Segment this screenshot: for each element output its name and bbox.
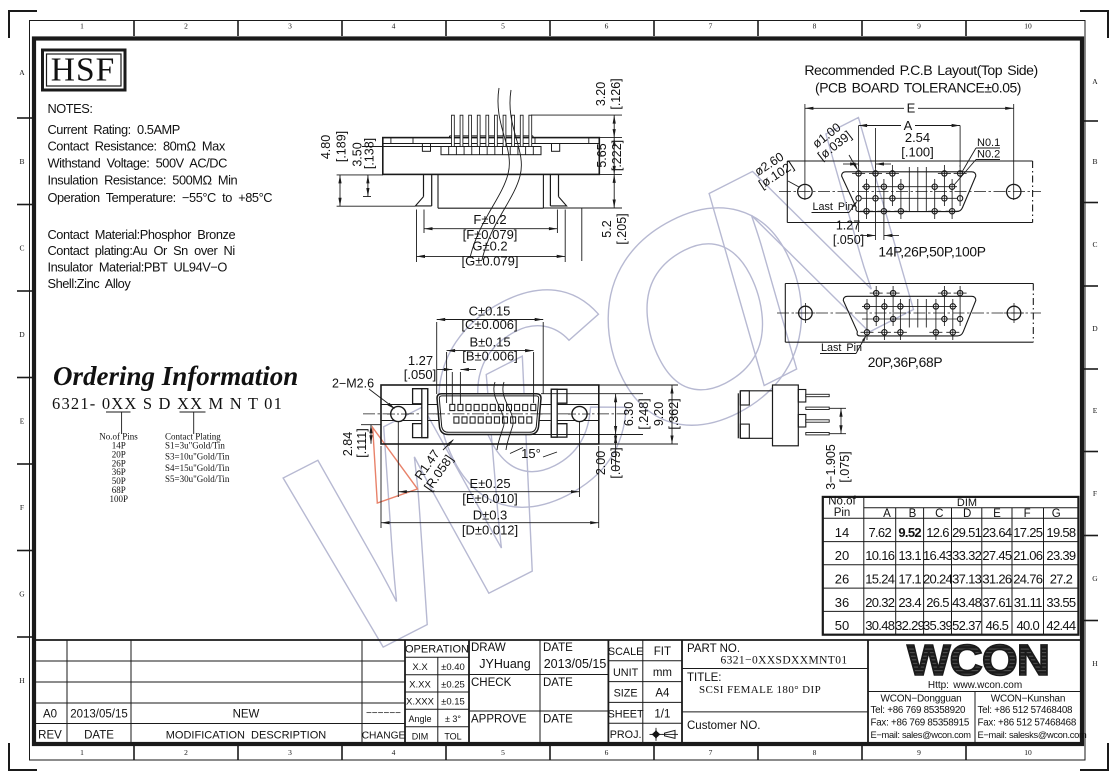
small connector pins	[806, 394, 829, 396]
svg-text:C: C	[19, 244, 24, 253]
svg-text:[.050]: [.050]	[833, 233, 864, 247]
svg-text:Insulation Resistance: 500MΩ: Insulation Resistance: 500MΩ Min	[48, 173, 238, 188]
small connector right steps	[798, 390, 806, 403]
svg-text:FIT: FIT	[654, 646, 671, 658]
svg-text:APPROVE: APPROVE	[471, 714, 527, 726]
svg-text:2013/05/15: 2013/05/15	[544, 657, 607, 671]
side view latch tab left	[422, 144, 430, 152]
svg-text:9: 9	[917, 22, 921, 31]
svg-text:6: 6	[605, 22, 609, 31]
svg-text:DATE: DATE	[543, 714, 573, 726]
svg-text:6.30: 6.30	[622, 402, 636, 426]
svg-text:14: 14	[835, 525, 849, 540]
svg-text:50: 50	[835, 618, 849, 633]
svg-text:B±0.15: B±0.15	[469, 335, 510, 350]
svg-text:± 3°: ± 3°	[445, 714, 461, 724]
pcb layout 2 D-sub outline	[843, 296, 976, 336]
svg-text:X.X: X.X	[412, 662, 428, 673]
label R1.47 [R.058] with leader	[410, 444, 456, 493]
svg-text:[.050]: [.050]	[404, 367, 437, 382]
front view centreline	[363, 413, 630, 415]
svg-text:PART NO.: PART NO.	[687, 643, 740, 655]
svg-text:19.58: 19.58	[1046, 525, 1076, 540]
svg-text:[.222]: [.222]	[610, 140, 624, 171]
svg-text:2: 2	[184, 748, 188, 757]
svg-text:30.48: 30.48	[865, 618, 895, 633]
side view pin mesa	[450, 135, 534, 137]
svg-text:E: E	[993, 508, 1001, 520]
svg-text:D: D	[1092, 324, 1098, 333]
svg-text:[.138]: [.138]	[363, 138, 377, 169]
svg-text:20P,36P,68P: 20P,36P,68P	[868, 355, 943, 370]
pcb layout 2 mounting hole left	[799, 306, 813, 320]
svg-text:Http: www.wcon.com: Http: www.wcon.com	[928, 680, 1022, 691]
svg-text:NOTES:: NOTES:	[48, 101, 93, 116]
svg-text:23.64: 23.64	[982, 525, 1012, 540]
pcb layout 1 board outline	[787, 160, 1032, 162]
front view left board lock	[413, 389, 428, 404]
svg-text:8: 8	[813, 748, 817, 757]
svg-text:DIM: DIM	[412, 731, 429, 741]
svg-text:1: 1	[80, 748, 84, 757]
svg-text:E: E	[907, 101, 916, 116]
svg-text:G±0.2: G±0.2	[472, 239, 507, 254]
svg-text:14P,26P,50P,100P: 14P,26P,50P,100P	[878, 245, 985, 260]
svg-text:S3=10u"Gold/Tin: S3=10u"Gold/Tin	[165, 452, 230, 462]
pcb layout 1 D-sub outline	[842, 172, 976, 212]
svg-text:[.111]: [.111]	[355, 428, 369, 457]
svg-text:4: 4	[392, 22, 396, 31]
svg-text:S5=30u"Gold/Tin: S5=30u"Gold/Tin	[165, 474, 230, 484]
svg-text:S1=3u"Gold/Tin: S1=3u"Gold/Tin	[165, 441, 225, 451]
svg-text:[.205]: [.205]	[615, 213, 629, 244]
pcb layout 2 pin holes	[875, 286, 877, 326]
svg-text:Tel: +86 512 57468408: Tel: +86 512 57468408	[978, 705, 1074, 716]
pcb layout 1 mounting hole right	[1006, 184, 1021, 199]
svg-text:DRAW: DRAW	[471, 642, 506, 654]
svg-text:[G±0.079]: [G±0.079]	[461, 254, 518, 269]
svg-text:40.0: 40.0	[1016, 618, 1039, 633]
projection symbol	[653, 731, 659, 737]
front view right board lock	[551, 389, 567, 403]
svg-text:24.76: 24.76	[1013, 572, 1043, 587]
svg-text:100P: 100P	[110, 494, 129, 504]
svg-text:Pin: Pin	[834, 507, 851, 519]
svg-text:D: D	[963, 508, 971, 520]
svg-text:4.80: 4.80	[319, 135, 333, 159]
svg-text:REV: REV	[38, 730, 62, 742]
svg-text:2.84: 2.84	[341, 432, 355, 456]
pcb layout 1 pin holes	[858, 165, 860, 206]
svg-text:27.2: 27.2	[1050, 572, 1073, 587]
svg-text:X.XXX: X.XXX	[406, 697, 435, 708]
svg-text:[.126]: [.126]	[609, 78, 623, 109]
svg-text:C: C	[935, 508, 943, 520]
svg-text:Recommended P.C.B Layout(Top: Recommended P.C.B Layout(Top Side)	[804, 62, 1037, 78]
svg-text:B: B	[909, 508, 917, 520]
svg-text:31.26: 31.26	[982, 572, 1012, 587]
svg-text:[.248]: [.248]	[637, 398, 651, 429]
svg-text:9.20: 9.20	[652, 402, 666, 426]
svg-text:C: C	[1092, 240, 1097, 249]
svg-text:13.1: 13.1	[898, 548, 921, 563]
svg-text:4: 4	[392, 748, 396, 757]
svg-text:A: A	[19, 68, 25, 77]
svg-text:3−1.905: 3−1.905	[824, 444, 838, 490]
svg-text:1.27: 1.27	[836, 219, 860, 233]
svg-text:mm: mm	[653, 667, 672, 679]
svg-text:36: 36	[835, 595, 849, 610]
underline second XX	[180, 411, 206, 413]
svg-text:WCON: WCON	[907, 635, 1049, 685]
svg-text:SIZE: SIZE	[614, 688, 638, 700]
svg-text:15°: 15°	[521, 446, 541, 461]
svg-text:37.61: 37.61	[982, 595, 1012, 610]
svg-text:33.55: 33.55	[1046, 595, 1076, 610]
svg-text:SHEET: SHEET	[608, 708, 644, 720]
svg-text:A4: A4	[655, 688, 670, 700]
svg-text:Fax: +86 769 85358915: Fax: +86 769 85358915	[871, 718, 970, 729]
svg-text:Withstand Voltage: 500V AC/: Withstand Voltage: 500V AC/DC	[48, 156, 228, 171]
svg-text:PROJ.: PROJ.	[610, 729, 642, 741]
svg-text:35.39: 35.39	[923, 618, 953, 633]
svg-text:DATE: DATE	[543, 677, 573, 689]
svg-text:A: A	[883, 508, 891, 520]
border tick marks and zone numbers	[133, 21, 135, 37]
svg-text:6321- 0XX S D XX M N T 01: 6321- 0XX S D XX M N T 01	[52, 394, 283, 413]
svg-text:SCSI FEMALE 180° DIP: SCSI FEMALE 180° DIP	[699, 684, 821, 696]
svg-text:No.of: No.of	[828, 496, 856, 508]
svg-text:NEW: NEW	[233, 709, 260, 721]
pcb layout 1 mounting hole left	[798, 184, 813, 199]
svg-text:3: 3	[288, 22, 292, 31]
front view mounting hole left	[391, 406, 406, 421]
HSF logo box	[43, 50, 126, 90]
svg-text:±0.40: ±0.40	[441, 662, 465, 673]
svg-text:F: F	[1093, 489, 1097, 498]
svg-text:31.11: 31.11	[1014, 595, 1043, 610]
side view break lines	[470, 88, 509, 258]
svg-text:1: 1	[80, 22, 84, 31]
label diameter 2.60 with leader	[749, 148, 796, 192]
pcb layout 2 centreline	[777, 312, 1041, 314]
svg-text:−−−−−−: −−−−−−	[366, 708, 401, 719]
side view body	[383, 138, 600, 175]
leader line to Contact Plating	[193, 413, 195, 435]
WCON logo	[907, 635, 1049, 685]
small connector main block	[773, 385, 799, 446]
svg-text:E: E	[1093, 406, 1098, 415]
svg-text:SCALE: SCALE	[608, 646, 643, 658]
svg-text:Current Rating: 0.5AMP: Current Rating: 0.5AMP	[48, 122, 180, 137]
part no section	[682, 668, 868, 670]
front view contacts bottom row	[454, 417, 459, 423]
scale/unit/size/sheet/proj column	[642, 640, 644, 744]
svg-text:[.100]: [.100]	[901, 145, 934, 160]
svg-text:UNIT: UNIT	[613, 667, 639, 679]
svg-text:HSF: HSF	[51, 52, 115, 89]
svg-text:27.45: 27.45	[982, 548, 1012, 563]
revision table	[66, 640, 68, 744]
front view mounting hole right	[572, 406, 587, 421]
svg-text:33.32: 33.32	[952, 548, 982, 563]
svg-text:Last Pin: Last Pin	[813, 201, 854, 213]
svg-text:7: 7	[709, 22, 713, 31]
svg-text:2.00: 2.00	[594, 451, 608, 475]
svg-text:Contact Resistance: 80mΩ Ma: Contact Resistance: 80mΩ Max	[48, 139, 226, 154]
svg-text:52.37: 52.37	[952, 618, 982, 633]
side view latch tab right	[552, 144, 560, 152]
svg-text:D±0.3: D±0.3	[473, 508, 508, 523]
svg-text:[.362]: [.362]	[667, 398, 681, 429]
svg-text:WCON−Dongguan: WCON−Dongguan	[880, 694, 961, 705]
svg-text:CHECK: CHECK	[471, 677, 512, 689]
svg-text:16.43: 16.43	[923, 548, 953, 563]
svg-text:S4=15u"Gold/Tin: S4=15u"Gold/Tin	[165, 463, 230, 473]
small connector body	[737, 393, 739, 438]
svg-text:Tel: +86 769 85358920: Tel: +86 769 85358920	[871, 705, 967, 716]
side view board line	[337, 205, 416, 207]
svg-text:26: 26	[835, 572, 849, 587]
svg-text:G: G	[1052, 508, 1061, 520]
svg-text:5.2: 5.2	[600, 220, 614, 237]
svg-text:TOL: TOL	[444, 731, 461, 741]
svg-text:20.24: 20.24	[923, 572, 953, 587]
svg-text:N0.2: N0.2	[977, 149, 1000, 161]
front view shell outline	[381, 385, 599, 444]
operation tolerance table	[437, 657, 439, 744]
svg-text:(PCB BOARD TOLERANCE±0.05): (PCB BOARD TOLERANCE±0.05)	[815, 80, 1021, 96]
pcb layout 1 dim A	[858, 126, 860, 167]
leader line to No.of Pins	[121, 413, 123, 435]
svg-text:[.189]: [.189]	[335, 131, 349, 162]
front view D-sub trapezoid	[437, 394, 541, 435]
svg-text:20.32: 20.32	[865, 595, 895, 610]
title block frame	[34, 639, 1082, 641]
svg-text:3.20: 3.20	[594, 82, 608, 106]
svg-text:[E±0.010]: [E±0.010]	[462, 491, 518, 506]
svg-text:Fax: +86 512 57468468: Fax: +86 512 57468468	[978, 718, 1077, 729]
svg-text:42.44: 42.44	[1046, 618, 1076, 633]
svg-text:7: 7	[709, 748, 713, 757]
svg-text:17.1: 17.1	[898, 572, 921, 587]
svg-text:Contact Material:Phosphor Br: Contact Material:Phosphor Bronze	[48, 227, 236, 242]
svg-text:8: 8	[813, 22, 817, 31]
front view flange lines	[381, 404, 599, 406]
watermark orange triangle	[373, 428, 418, 503]
svg-text:[.075]: [.075]	[838, 451, 852, 482]
svg-text:5: 5	[501, 22, 505, 31]
side view left leg	[423, 174, 425, 196]
svg-text:G: G	[1092, 574, 1098, 583]
svg-text:9.52: 9.52	[898, 525, 921, 540]
svg-text:F: F	[20, 503, 24, 512]
svg-text:JYHuang: JYHuang	[479, 657, 530, 671]
svg-text:B: B	[1092, 157, 1097, 166]
svg-text:20: 20	[835, 548, 849, 563]
svg-text:37.13: 37.13	[952, 572, 982, 587]
side view right leg	[558, 174, 560, 196]
svg-text:Operation Temperature: −55°C: Operation Temperature: −55°C to +85°C	[48, 190, 273, 205]
svg-text:±0.15: ±0.15	[441, 697, 465, 708]
svg-text:10: 10	[1024, 748, 1032, 757]
corner trim marks	[9, 11, 37, 38]
svg-text:A: A	[1092, 77, 1098, 86]
svg-text:H: H	[1092, 659, 1098, 668]
svg-text:CHANGE: CHANGE	[362, 731, 406, 742]
svg-text:29.51: 29.51	[952, 525, 982, 540]
svg-text:21.06: 21.06	[1013, 548, 1043, 563]
draw/check/approve columns	[539, 640, 541, 744]
svg-text:DATE: DATE	[543, 642, 573, 654]
svg-text:Contact plating:Au Or Sn o: Contact plating:Au Or Sn over Ni	[48, 243, 235, 258]
svg-text:DATE: DATE	[84, 730, 114, 742]
svg-text:Customer NO.: Customer NO.	[687, 720, 761, 732]
svg-text:26.5: 26.5	[926, 595, 949, 610]
svg-text:1.27: 1.27	[408, 353, 433, 368]
svg-text:[D±0.012]: [D±0.012]	[462, 523, 518, 538]
svg-text:10.16: 10.16	[865, 548, 895, 563]
pcb layout 2 mounting hole right	[1007, 306, 1021, 320]
svg-text:9: 9	[917, 748, 921, 757]
svg-text:E: E	[20, 417, 25, 426]
svg-text:2: 2	[184, 22, 188, 31]
svg-text:Insulator Material:PBT UL94V: Insulator Material:PBT UL94V−O	[48, 260, 228, 275]
svg-text:17.25: 17.25	[1013, 525, 1043, 540]
svg-text:2−M2.6: 2−M2.6	[332, 377, 374, 391]
dimension table	[823, 497, 1079, 635]
side view top band line	[383, 143, 600, 145]
pcb layout 2 board outline	[785, 283, 1033, 285]
underline first XX	[106, 411, 131, 413]
svg-text:F: F	[1024, 508, 1031, 520]
svg-text:MODIFICATION DESCRIPTION: MODIFICATION DESCRIPTION	[166, 730, 327, 742]
svg-text:7.62: 7.62	[868, 525, 891, 540]
svg-text:D: D	[19, 330, 25, 339]
svg-text:Last Pin: Last Pin	[821, 342, 862, 354]
svg-text:32.29: 32.29	[895, 618, 925, 633]
svg-text:43.48: 43.48	[952, 595, 982, 610]
side view centre standoff	[437, 174, 439, 208]
svg-text:3: 3	[288, 748, 292, 757]
svg-text:5: 5	[501, 748, 505, 757]
pcb layout 1 dim E	[805, 107, 1014, 109]
svg-text:Angle: Angle	[408, 714, 431, 724]
svg-text:A0: A0	[43, 709, 57, 721]
front view contacts top row	[450, 404, 455, 410]
pcb layout 1 centreline	[779, 191, 1041, 193]
svg-text:Ordering Information: Ordering Information	[53, 361, 298, 391]
svg-text:F±0.2: F±0.2	[473, 212, 506, 227]
svg-text:10: 10	[1024, 22, 1032, 31]
svg-text:H: H	[19, 676, 25, 685]
svg-text:6321−0XXSDXXMNT01: 6321−0XXSDXXMNT01	[720, 655, 847, 667]
svg-text:2013/05/15: 2013/05/15	[70, 709, 128, 721]
svg-text:±0.25: ±0.25	[441, 679, 465, 690]
svg-text:X.XX: X.XX	[409, 679, 431, 690]
svg-text:E−mail: sales@wcon.com: E−mail: sales@wcon.com	[871, 730, 972, 740]
svg-text:23.39: 23.39	[1046, 548, 1076, 563]
svg-text:TITLE:: TITLE:	[687, 672, 722, 684]
svg-text:23.4: 23.4	[898, 595, 921, 610]
side view pins	[452, 115, 455, 146]
label diameter 1.00 with leader	[807, 118, 854, 163]
svg-text:15.24: 15.24	[865, 572, 895, 587]
svg-text:46.5: 46.5	[986, 618, 1009, 633]
svg-text:2.54: 2.54	[905, 130, 930, 145]
svg-text:OPERATION: OPERATION	[405, 644, 469, 656]
side view contact comb	[441, 147, 541, 155]
svg-text:5.65: 5.65	[595, 143, 609, 167]
svg-text:N0.1: N0.1	[977, 137, 1000, 149]
svg-text:Shell:Zinc Alloy: Shell:Zinc Alloy	[48, 276, 132, 291]
svg-text:1/1: 1/1	[654, 708, 670, 720]
svg-text:E±0.25: E±0.25	[469, 476, 510, 491]
dim 3-1.905 [.075]	[829, 407, 846, 409]
svg-text:6: 6	[605, 748, 609, 757]
svg-text:B: B	[19, 157, 24, 166]
svg-text:G: G	[19, 590, 25, 599]
svg-text:WCON−Kunshan: WCON−Kunshan	[991, 694, 1066, 705]
front view break lines	[494, 382, 504, 450]
front view centreline over shell	[433, 413, 545, 415]
svg-text:E−mail: salesks@wcon.com: E−mail: salesks@wcon.com	[978, 730, 1087, 740]
svg-text:12.6: 12.6	[926, 525, 949, 540]
